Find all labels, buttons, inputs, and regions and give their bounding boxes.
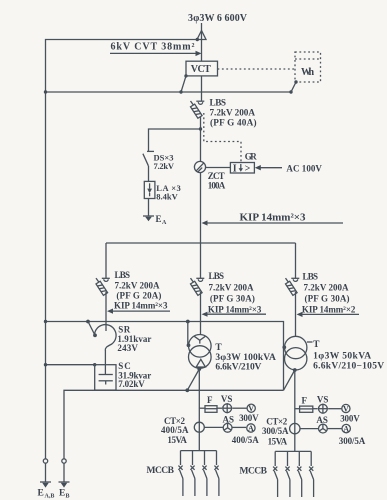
svg-text:AS: AS bbox=[316, 415, 328, 425]
node dot T1 case bbox=[187, 343, 191, 347]
svg-text:E: E bbox=[59, 489, 65, 499]
node dot T1 case tap bbox=[186, 320, 190, 324]
wire Wh riser bbox=[291, 82, 296, 92]
svg-text:KIP 14mm²×2: KIP 14mm²×2 bbox=[302, 305, 356, 315]
switch LBS right bbox=[291, 277, 299, 279]
svg-text:1φ3W 50kVA: 1φ3W 50kVA bbox=[313, 351, 371, 361]
wire middle branch drop bbox=[200, 243, 202, 278]
wire top ground tap to rail1 bbox=[46, 40, 198, 459]
svg-text:VS: VS bbox=[221, 394, 233, 404]
wire main line arrow to VCT bbox=[201, 40, 203, 62]
svg-text:7.2kV 200A: 7.2kV 200A bbox=[115, 281, 161, 291]
node junction dot bbox=[196, 38, 199, 41]
svg-text:7.02kV: 7.02kV bbox=[118, 379, 145, 389]
wire trip dotted bbox=[204, 113, 241, 163]
svg-text:6.6kV/210−105V: 6.6kV/210−105V bbox=[313, 361, 384, 371]
svg-text:A: A bbox=[162, 220, 167, 226]
svg-text:A: A bbox=[343, 425, 349, 434]
node dot SR arc start bbox=[93, 333, 97, 337]
svg-text:(PF G 30A): (PF G 30A) bbox=[305, 294, 350, 304]
svg-text:VS: VS bbox=[317, 395, 329, 405]
arrester LA bbox=[144, 181, 155, 198]
meter VS right bbox=[313, 408, 318, 410]
svg-text:MCCB: MCCB bbox=[147, 466, 175, 476]
svg-text:300/5A: 300/5A bbox=[262, 426, 289, 436]
wire ground bus B bbox=[64, 390, 284, 459]
reactor SR arc bbox=[94, 325, 116, 351]
switch LBS middle bbox=[196, 277, 204, 279]
svg-text:T: T bbox=[215, 343, 222, 353]
wire SR slant bbox=[88, 322, 95, 336]
svg-text:LBS: LBS bbox=[115, 270, 131, 280]
svg-text:LBS: LBS bbox=[303, 271, 319, 281]
wire T2 neutral slant bbox=[284, 370, 295, 390]
wire DS branch bbox=[149, 129, 201, 151]
wire incoming drop bbox=[201, 23, 203, 31]
node incoming arrow bbox=[197, 31, 206, 40]
svg-text:400/5A: 400/5A bbox=[232, 435, 260, 445]
meter Wh dashed box bbox=[295, 52, 321, 82]
wire T1 secondary down bbox=[198, 368, 200, 450]
node dot T2 secondary bbox=[293, 368, 297, 372]
svg-text:300V: 300V bbox=[340, 413, 360, 423]
transformer T1 bbox=[189, 335, 212, 358]
node test link rail2 bbox=[62, 459, 66, 463]
capacitor SC box bbox=[95, 365, 116, 390]
wire cable label arrow bbox=[110, 52, 197, 54]
svg-text:V: V bbox=[248, 404, 254, 413]
wire T1 neutral slant bbox=[187, 369, 199, 390]
wire T2 secondary down bbox=[294, 370, 296, 451]
svg-text:(PF G 20A): (PF G 20A) bbox=[116, 291, 161, 301]
node junction dot bbox=[179, 90, 182, 93]
wire LBS to ZCT bbox=[200, 117, 202, 162]
node dot SR tap bbox=[86, 320, 90, 324]
svg-text:KIP 14mm²×3: KIP 14mm²×3 bbox=[240, 211, 307, 223]
svg-text:LBS: LBS bbox=[209, 271, 225, 281]
fuse F middle bbox=[199, 407, 205, 409]
fuse F right bbox=[295, 408, 300, 410]
svg-text:F: F bbox=[207, 395, 213, 405]
svg-text:300/5A: 300/5A bbox=[339, 436, 366, 446]
node junction dot rail1 bbox=[44, 90, 47, 93]
node dot T2 case bbox=[282, 345, 286, 349]
ground EB bbox=[59, 481, 70, 483]
wire T1 case drop bbox=[187, 322, 189, 346]
svg-text:I: I bbox=[233, 164, 237, 175]
switch LBS left bbox=[102, 277, 110, 279]
svg-text:7.2kV: 7.2kV bbox=[154, 161, 175, 171]
svg-text:AC 100V: AC 100V bbox=[286, 163, 322, 173]
svg-text:7.2kV 200A: 7.2kV 200A bbox=[304, 283, 350, 293]
svg-text:B: B bbox=[66, 493, 70, 499]
meter A right bbox=[327, 428, 342, 430]
svg-text:A,B: A,B bbox=[45, 493, 55, 499]
meter AS right bbox=[300, 428, 319, 430]
node VCT case dot bbox=[184, 74, 187, 77]
svg-text:LBS: LBS bbox=[210, 97, 227, 107]
svg-text:>: > bbox=[245, 164, 251, 175]
svg-text:T: T bbox=[313, 340, 320, 350]
node dot rail1 bbox=[44, 320, 47, 323]
relay GR box bbox=[230, 163, 254, 174]
svg-text:(PF G 40A): (PF G 40A) bbox=[210, 118, 257, 128]
meter AS middle bbox=[204, 426, 223, 428]
svg-text:243V: 243V bbox=[117, 343, 138, 353]
wire LA to ground bbox=[148, 199, 150, 217]
svg-text:CT×2: CT×2 bbox=[266, 416, 288, 426]
svg-text:SR: SR bbox=[118, 325, 131, 335]
svg-text:E: E bbox=[156, 214, 162, 224]
switch DS bbox=[147, 150, 154, 152]
wire ZCT to GR bbox=[206, 167, 231, 169]
svg-text:V: V bbox=[343, 405, 349, 414]
svg-text:15VA: 15VA bbox=[167, 435, 187, 445]
svg-text:400/5A: 400/5A bbox=[161, 425, 189, 435]
transformer ZCT bbox=[194, 161, 205, 172]
svg-text:100A: 100A bbox=[208, 181, 226, 191]
svg-text:F: F bbox=[302, 396, 308, 406]
switch LBS main bbox=[196, 100, 204, 102]
meter V right bbox=[328, 408, 341, 410]
node Wh corner dot bbox=[294, 80, 297, 83]
svg-text:3φ3W 6 600V: 3φ3W 6 600V bbox=[188, 13, 248, 24]
label T2 bbox=[307, 341, 313, 343]
wire left branch drop bbox=[105, 243, 107, 278]
svg-text:VCT: VCT bbox=[191, 64, 211, 75]
wire right branch to transformer bbox=[295, 292, 297, 337]
svg-text:7.2kV 200A: 7.2kV 200A bbox=[210, 108, 256, 118]
wire DS to LA bbox=[148, 166, 150, 182]
ground EAB bbox=[40, 481, 51, 483]
node test link rail1 bbox=[43, 459, 47, 463]
node dot T1 neutral bbox=[185, 388, 189, 392]
wire left branch LBS to SR bbox=[105, 292, 107, 331]
transformer CT right bbox=[290, 423, 300, 433]
wire VCT to Wh dashed bbox=[218, 68, 296, 70]
svg-text:6.6kV/210V: 6.6kV/210V bbox=[215, 362, 261, 372]
meter A middle bbox=[232, 426, 246, 428]
breaker MCCB right group bbox=[275, 450, 311, 452]
svg-text:300V: 300V bbox=[239, 413, 259, 423]
wire SC top line bbox=[46, 364, 95, 366]
svg-text:Wh: Wh bbox=[301, 67, 314, 78]
ground EA bbox=[143, 215, 154, 217]
svg-text:KIP 14mm²×3: KIP 14mm²×3 bbox=[208, 304, 262, 314]
svg-text:7.2kV 200A: 7.2kV 200A bbox=[209, 283, 255, 293]
svg-text:GR: GR bbox=[245, 151, 257, 161]
wire SR to SC bbox=[104, 350, 106, 375]
svg-text:MCCB: MCCB bbox=[240, 466, 268, 476]
svg-text:8.4kV: 8.4kV bbox=[156, 192, 178, 202]
svg-text:AS: AS bbox=[223, 414, 235, 424]
node DS tap dot bbox=[199, 127, 202, 130]
meter V middle bbox=[232, 407, 246, 409]
transformer CT middle bbox=[194, 422, 204, 432]
transformer T2 bbox=[285, 336, 307, 358]
node junction dot Wh tap bbox=[289, 90, 292, 93]
wire middle branch to transformer bbox=[200, 292, 202, 335]
wire VCT to LBS bbox=[201, 76, 203, 101]
svg-text:KIP 14mm²×3: KIP 14mm²×3 bbox=[114, 301, 168, 311]
meter VS middle bbox=[217, 407, 222, 409]
svg-text:A: A bbox=[248, 424, 254, 433]
svg-text:15VA: 15VA bbox=[268, 436, 288, 446]
wire AC 100V arrow bbox=[255, 165, 261, 170]
svg-text:E: E bbox=[38, 489, 44, 499]
wire VCT case ground slant bbox=[181, 76, 186, 92]
wire bus bbox=[106, 242, 296, 244]
wire right branch drop bbox=[295, 243, 297, 278]
breaker MCCB middle group bbox=[181, 450, 217, 452]
wire case ground long line bbox=[46, 322, 284, 391]
node dot T1 secondary bbox=[197, 367, 201, 371]
wire case ground horizontal bbox=[46, 91, 292, 93]
svg-text:(PF G 30A): (PF G 30A) bbox=[210, 294, 255, 304]
svg-text:6kV CVT 38mm²: 6kV CVT 38mm² bbox=[111, 42, 195, 53]
wire main ZCT to bus bbox=[200, 173, 202, 243]
meter VCT bbox=[186, 61, 218, 76]
